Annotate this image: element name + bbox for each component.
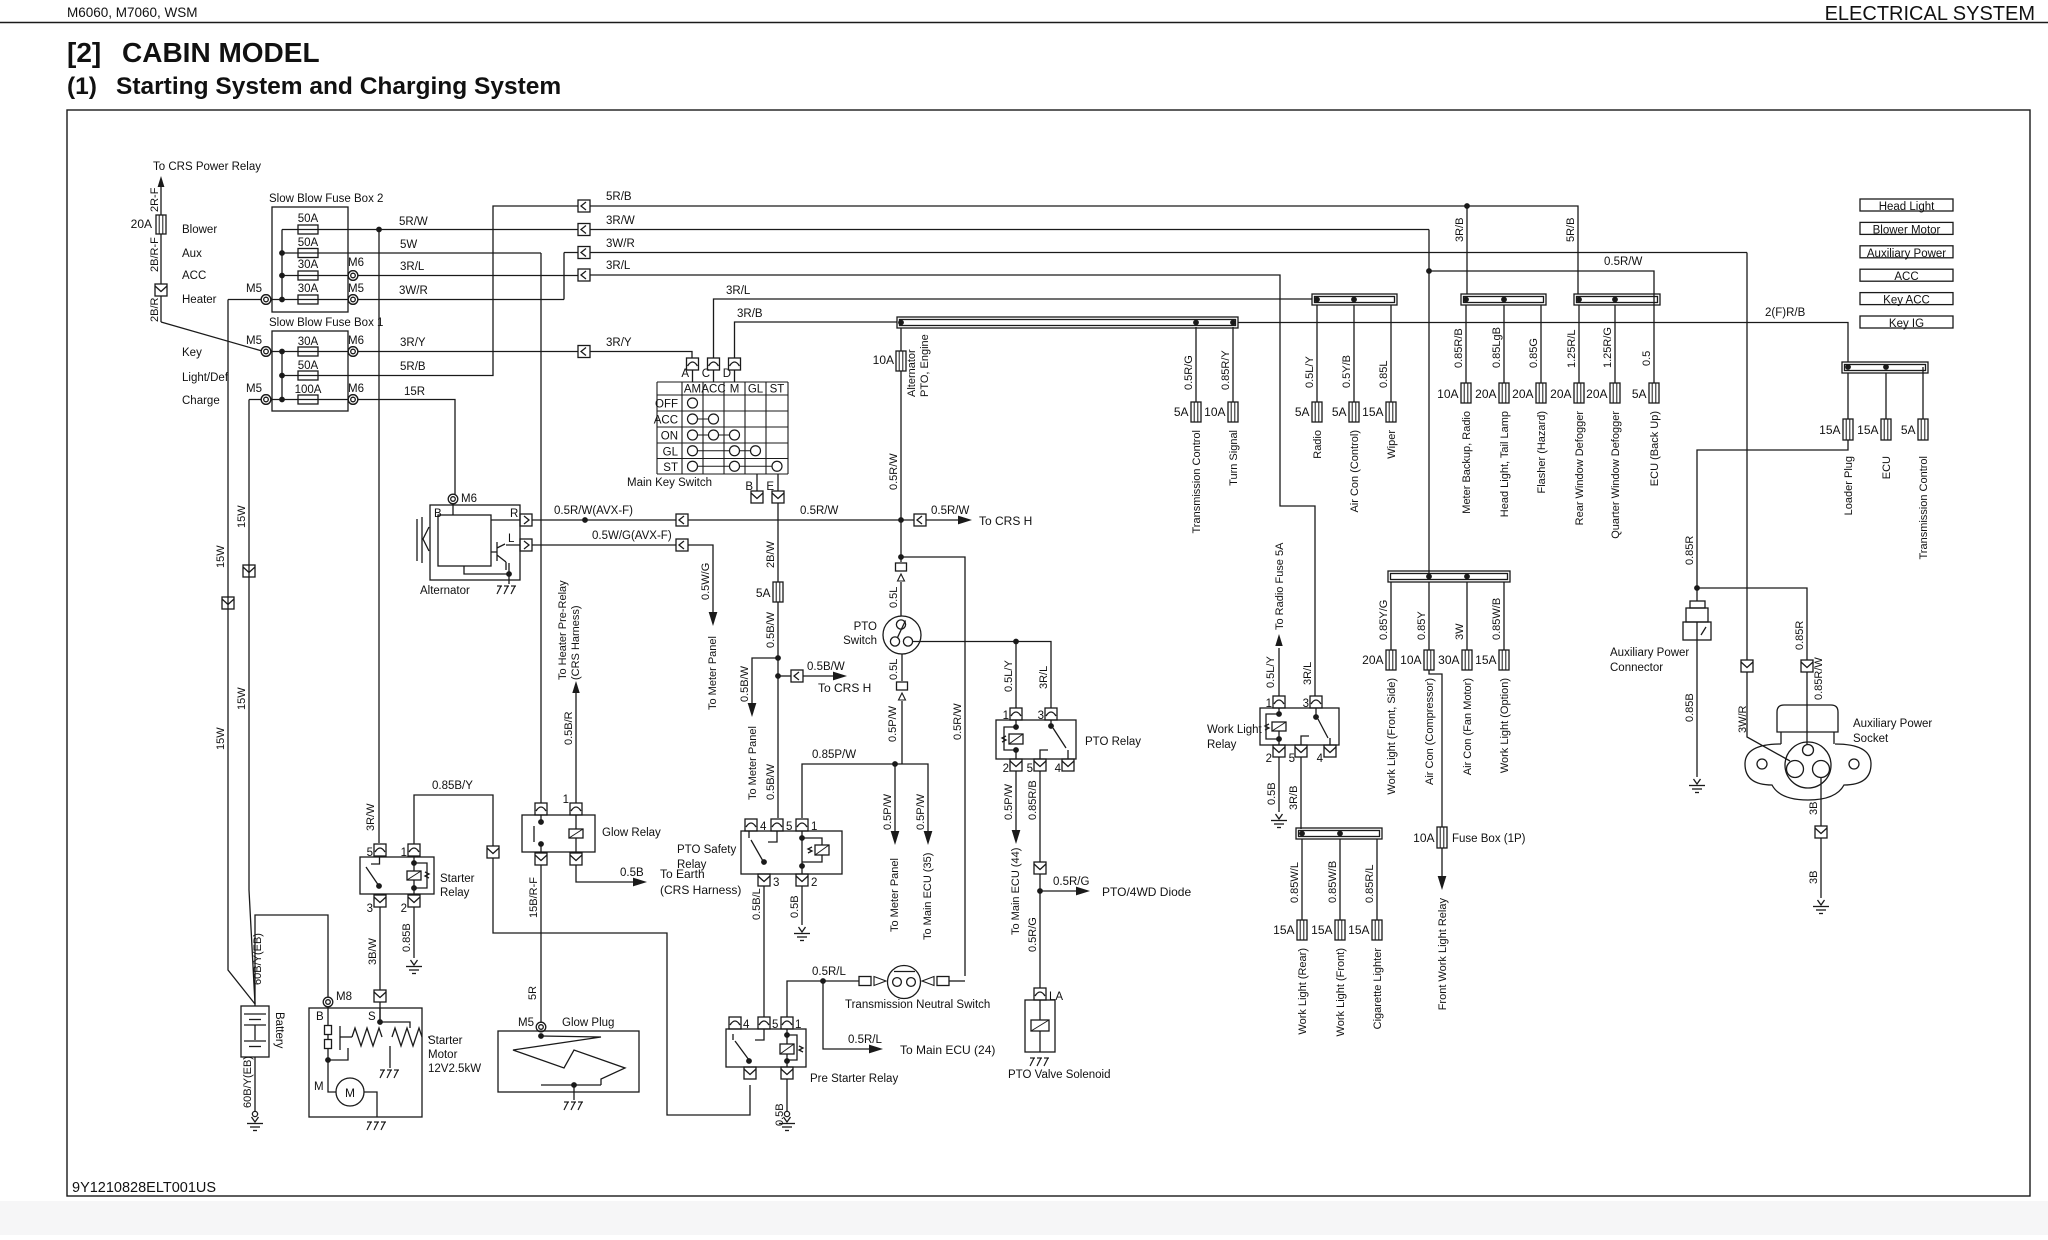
bus bar meter backup group [1461,294,1546,305]
alternator internal ground [464,563,509,584]
svg-text:0.5B/W: 0.5B/W [765,611,777,648]
svg-text:0.85B: 0.85B [1684,693,1696,722]
wire 0.5B/W branches [777,602,779,818]
wire 0.85R from loader plug fuse [1697,440,1848,588]
svg-text:30A: 30A [298,336,319,348]
svg-text:Heater: Heater [182,294,217,306]
svg-text:0.85Y: 0.85Y [1416,611,1428,640]
wire 0.85G drop [1540,305,1542,383]
svg-text:15A: 15A [1348,923,1369,937]
connector 5R/B [578,200,590,212]
wire 0.5B/L to pre starter relay [763,886,765,1017]
wire 3B socket to ground [1820,778,1822,826]
svg-text:1: 1 [795,1019,801,1031]
connector M8 starter B [323,997,333,1007]
wire 0.85R to socket [1697,588,1807,660]
svg-text:0.5B: 0.5B [789,895,801,918]
svg-text:Pre Starter Relay: Pre Starter Relay [810,1073,898,1085]
svg-text:3B/W: 3B/W [367,937,379,965]
svg-text:Auxiliary Power: Auxiliary Power [1867,248,1946,260]
svg-text:0.5P/W: 0.5P/W [915,793,927,830]
svg-text:0.5B/L: 0.5B/L [751,888,763,920]
svg-text:20A: 20A [1475,387,1496,401]
svg-text:5R: 5R [527,986,539,1000]
PTO relay coil [1004,720,1016,759]
svg-text:To CRS H: To CRS H [818,681,871,695]
svg-text:To Meter Panel: To Meter Panel [747,726,759,800]
svg-text:3R/B: 3R/B [1288,786,1300,810]
svg-text:50A: 50A [298,360,319,372]
wire 3R/B from terminal D [735,322,898,358]
svg-text:15A: 15A [1362,405,1383,419]
svg-text:30A: 30A [298,259,319,271]
wire loader plug drop [1847,373,1849,419]
svg-text:10A: 10A [873,353,894,367]
svg-text:To Meter Panel: To Meter Panel [889,858,901,932]
svg-text:3B: 3B [1808,871,1820,884]
svg-text:15A: 15A [1475,653,1496,667]
svg-text:0.85R/Y: 0.85R/Y [1220,350,1232,390]
Starter Relay [360,857,434,894]
svg-text:Work Light: Work Light [1207,724,1263,736]
Auxiliary Power Connector [1696,588,1698,601]
svg-text:ON: ON [661,431,678,443]
svg-text:Battery: Battery [273,1012,285,1049]
svg-text:Switch: Switch [843,635,877,647]
svg-text:0.85R/B: 0.85R/B [1027,780,1039,820]
svg-text:1: 1 [1266,698,1272,710]
svg-text:5R/B: 5R/B [1565,218,1577,242]
wire 3R/W branch down to starter relay [378,230,380,844]
wire 15B/R-F 5R to glow plug [540,865,542,1022]
svg-text:Slow Blow Fuse Box 2: Slow Blow Fuse Box 2 [269,193,383,205]
connector M6 alternator B [448,494,458,504]
svg-text:60B/Y(EB): 60B/Y(EB) [252,933,264,985]
svg-text:To CRS H: To CRS H [979,514,1032,528]
fuse 10A alternator [900,328,902,351]
svg-text:10A: 10A [1413,831,1434,845]
svg-text:4: 4 [1317,753,1324,765]
wire 2B/R to key fuse [160,296,162,322]
svg-text:5R/W: 5R/W [399,216,428,228]
net label box Key IG [1860,316,1953,328]
svg-text:0.85P/W: 0.85P/W [812,749,856,761]
header rule [0,22,2048,24]
svg-text:12V2.5kW: 12V2.5kW [428,1063,481,1075]
Glow Relay [522,815,595,852]
svg-text:3R/L: 3R/L [400,261,425,273]
svg-text:Main Key Switch: Main Key Switch [627,477,712,489]
svg-text:B: B [316,1011,324,1023]
svg-text:3R/L: 3R/L [1302,662,1314,685]
svg-text:Work Light (Rear): Work Light (Rear) [1297,948,1309,1035]
wire 3R/Y key output [266,351,578,353]
svg-text:M: M [314,1081,324,1093]
wire ECU drop [1885,373,1887,419]
connector 0.5B/W to CRS H [778,675,791,677]
svg-text:0.5: 0.5 [1641,351,1653,366]
svg-text:15R: 15R [404,386,425,398]
svg-text:Alternator: Alternator [906,349,918,397]
svg-text:0.5P/W: 0.5P/W [1003,783,1015,820]
svg-text:0.85L: 0.85L [1378,360,1390,388]
svg-text:Aux: Aux [182,248,202,260]
svg-text:3R/W: 3R/W [606,215,635,227]
svg-text:0.5R/W(AVX-F): 0.5R/W(AVX-F) [554,505,633,517]
wire 0.5B work light relay to ground [1278,757,1280,812]
svg-text:ACC: ACC [182,270,206,282]
svg-text:2: 2 [811,877,817,889]
Glow Plug [536,1022,546,1032]
wire 0.5R/W link to transmission neutral switch [901,557,965,976]
alternator pulley [417,517,429,563]
bus bar defogger group [1574,294,1660,305]
svg-text:0.5R/W: 0.5R/W [952,703,964,740]
svg-text:5: 5 [786,821,792,833]
svg-text:3R/B: 3R/B [737,308,763,320]
svg-text:To Main ECU (44): To Main ECU (44) [1010,848,1022,935]
svg-text:0.85R: 0.85R [1794,621,1806,650]
svg-text:1: 1 [1003,710,1009,722]
svg-text:0.5P/W: 0.5P/W [887,705,899,742]
svg-text:10A: 10A [1204,405,1225,419]
PTO Safety Relay [741,831,842,874]
svg-text:1: 1 [811,821,817,833]
PTO Valve Solenoid [1034,988,1046,1000]
svg-text:0.85LgB: 0.85LgB [1491,327,1503,368]
wire 0.85W/L drop [1301,839,1303,920]
svg-text:0.5R/G: 0.5R/G [1027,917,1039,952]
alternator assembly [430,505,520,580]
wire 3R/L to work light relay [590,275,1315,696]
svg-text:0.5L/Y: 0.5L/Y [1265,656,1277,688]
svg-text:To Meter Panel: To Meter Panel [707,636,719,710]
wire 2B/W from terminal E [777,503,779,582]
wire 5R/B light/def output [282,206,578,376]
wire 0.85LgB drop [1503,305,1505,383]
wire 1.25R/L drop [1578,305,1580,383]
svg-text:3W/R: 3W/R [399,285,428,297]
svg-text:Light/Def: Light/Def [182,372,229,384]
svg-text:0.5L: 0.5L [888,659,900,680]
wire 0.5W/G(AVX-F) from alternator L [532,544,676,546]
svg-text:0.85W/L: 0.85W/L [1289,862,1301,903]
svg-text:3W/R: 3W/R [606,238,635,250]
wire 0.85W/B drop to option [1503,582,1505,650]
bus bar front work light group [1388,571,1510,582]
svg-text:1: 1 [563,794,569,806]
wire 3R/B drop to fuse bus B [1466,206,1468,294]
svg-text:0.85B/Y: 0.85B/Y [432,780,473,792]
svg-text:0.85W/B: 0.85W/B [1327,861,1339,903]
svg-text:50A: 50A [298,213,319,225]
svg-text:0.5W/G(AVX-F): 0.5W/G(AVX-F) [592,530,672,542]
svg-text:Blower: Blower [182,224,217,236]
svg-text:15A: 15A [1273,923,1294,937]
svg-text:1.25R/G: 1.25R/G [1602,327,1614,368]
wire 0.5L below PTO switch [901,654,903,681]
connector 0.5W/G [676,539,688,551]
svg-text:0.5Y/B: 0.5Y/B [1341,355,1353,388]
svg-text:0.85R/L: 0.85R/L [1364,864,1376,903]
starter motor hold-in coils [352,1028,422,1046]
svg-text:0.5B/W: 0.5B/W [765,763,777,800]
svg-text:20A: 20A [131,217,152,231]
wire air con compressor to fuse box 1P [1429,670,1442,827]
svg-text:0.5R/W: 0.5R/W [1604,256,1642,268]
svg-text:0.5R/W: 0.5R/W [931,505,969,517]
wire 0.85B starter relay to ground [413,907,415,958]
wire 0.85R/B drop [1465,305,1467,383]
wire 0.85B/Y starter relay pin1 to pre starter relay [414,795,493,846]
svg-text:3R/L: 3R/L [726,285,751,297]
svg-text:Auxiliary Power: Auxiliary Power [1853,718,1932,730]
svg-text:M5: M5 [518,1017,534,1029]
svg-text:Quarter Window Defogger: Quarter Window Defogger [1610,411,1622,539]
PTO Switch [883,616,921,654]
svg-text:0.5L/Y: 0.5L/Y [1003,660,1015,692]
svg-text:0.5P/W: 0.5P/W [882,793,894,830]
svg-text:5A: 5A [1174,405,1189,419]
svg-text:0.5B: 0.5B [1266,782,1278,805]
svg-text:M6060, M7060, WSM: M6060, M7060, WSM [67,5,198,20]
svg-text:5A: 5A [1632,387,1647,401]
svg-text:To Main ECU (35): To Main ECU (35) [922,853,934,940]
wire 15W heater to battery [228,300,255,1005]
svg-text:0.5R/L: 0.5R/L [812,966,846,978]
Main Key Switch table [656,382,658,474]
svg-text:M5: M5 [246,335,262,347]
wire 3R/L from terminal C [714,299,1313,358]
wire 15W charge to battery [249,400,255,1005]
svg-text:PTO/4WD Diode: PTO/4WD Diode [1102,885,1191,899]
svg-text:ACC: ACC [701,384,725,396]
svg-text:0.85B: 0.85B [401,923,413,952]
svg-text:(CRS Harness): (CRS Harness) [660,883,741,897]
wire 15R charge output [249,400,455,495]
svg-text:4: 4 [743,1019,750,1031]
alternator regulator transistor [491,542,506,570]
svg-text:0.5L/Y: 0.5L/Y [1304,356,1316,388]
wire 2B/R-F [160,234,162,284]
svg-text:To Radio Fuse 5A: To Radio Fuse 5A [1274,542,1286,630]
svg-text:Wiper: Wiper [1386,430,1398,459]
svg-text:3R/B: 3R/B [1454,218,1466,242]
connector 3R/W [578,224,590,236]
svg-text:To CRS Power Relay: To CRS Power Relay [153,161,261,173]
svg-text:Flasher (Hazard): Flasher (Hazard) [1536,411,1548,494]
wire battery positive to starter B [255,915,328,1006]
wire 3R/B to work light bus [1300,757,1302,829]
PTO relay switch [1040,720,1068,759]
svg-text:Rear Window Defogger: Rear Window Defogger [1574,411,1586,526]
wire to front work light relay [1441,848,1443,876]
svg-text:Auxiliary Power: Auxiliary Power [1610,647,1689,659]
svg-text:S: S [368,1011,376,1023]
svg-text:Relay: Relay [677,859,707,871]
svg-text:0.5R/G: 0.5R/G [1183,355,1195,390]
wire 0.5L junction to PTO switch [898,554,904,560]
svg-text:0.5L: 0.5L [888,587,900,608]
svg-text:0.85R: 0.85R [1684,536,1696,565]
svg-text:Relay: Relay [1207,739,1237,751]
wire 0.5L/Y drop [1316,305,1318,402]
svg-text:Transmission Control: Transmission Control [1918,456,1930,560]
connector 3W/R [578,247,590,259]
net label box Key ACC [1860,293,1953,305]
bus bar rear work light group [1296,828,1382,839]
svg-text:3: 3 [773,877,779,889]
svg-text:0.85R/B: 0.85R/B [1453,328,1465,368]
svg-text:5: 5 [367,847,373,859]
svg-text:0.5B/W: 0.5B/W [807,661,845,673]
svg-text:3: 3 [1038,710,1044,722]
svg-text:Key ACC: Key ACC [1883,295,1930,307]
svg-text:M6: M6 [461,493,477,505]
svg-text:Air Con (Control): Air Con (Control) [1349,430,1361,513]
wire 0.5R/G to PTO valve solenoid [1039,874,1041,988]
svg-text:M: M [730,384,740,396]
svg-text:10A: 10A [1437,387,1458,401]
svg-text:0.5R/W: 0.5R/W [800,505,838,517]
svg-text:Fuse Box (1P): Fuse Box (1P) [1452,833,1526,845]
svg-text:OFF: OFF [655,399,678,411]
svg-text:0.85R/W: 0.85R/W [1813,657,1825,700]
key switch contacts [688,398,698,408]
svg-text:30A: 30A [1438,653,1459,667]
svg-text:4: 4 [760,821,767,833]
svg-text:Socket: Socket [1853,733,1889,745]
svg-text:Cigarette Lighter: Cigarette Lighter [1372,948,1384,1030]
svg-text:3R/L: 3R/L [1038,666,1050,689]
svg-text:CABIN MODEL: CABIN MODEL [122,37,320,68]
svg-text:B: B [434,508,442,520]
wire 0.5W/G to meter panel [688,545,713,612]
svg-text:Work Light (Front, Side): Work Light (Front, Side) [1386,678,1398,795]
svg-text:Glow Relay: Glow Relay [602,827,661,839]
svg-text:(CRS Harness): (CRS Harness) [570,605,582,680]
connector 0.5R/W right [914,514,926,526]
svg-text:2: 2 [1003,763,1009,775]
wire 0.5R/W to ECU backup fuse [1428,230,1430,576]
svg-text:Slow Blow Fuse Box 1: Slow Blow Fuse Box 1 [269,317,383,329]
wire 0.5R/W(AVX-F) from alternator R [532,519,676,521]
Work Light Relay [1260,708,1339,745]
wire transmission control drop [1922,367,1924,419]
svg-text:3R/L: 3R/L [606,260,631,272]
svg-text:To Main ECU (24): To Main ECU (24) [900,1043,995,1057]
svg-text:Key IG: Key IG [1889,318,1924,330]
wire 0.85R/L drop [1376,839,1378,920]
svg-text:M8: M8 [336,991,352,1003]
svg-text:5W: 5W [400,239,417,251]
svg-text:10A: 10A [1400,653,1421,667]
connector 3R/Y [578,346,590,358]
svg-text:ST: ST [663,462,678,474]
svg-text:Relay: Relay [440,887,470,899]
svg-text:5A: 5A [1295,405,1310,419]
wire 2(F)R/B to loader bus [1238,323,1848,363]
wire 0.5Y/B drop [1353,305,1355,402]
wire 0.5P/W arrows to meter panel and ECU 35 [892,761,898,767]
connector on 2B/R line [155,284,167,296]
svg-text:Head Light: Head Light [1879,201,1935,213]
svg-text:4: 4 [1055,763,1062,775]
alternator L terminal connector [520,539,532,551]
svg-text:[2]: [2] [67,37,101,68]
svg-text:M6: M6 [348,335,364,347]
svg-text:50A: 50A [298,237,319,249]
svg-text:Air Con (Fan Motor): Air Con (Fan Motor) [1462,678,1474,775]
wire 0.5L/Y to radio fuse [1278,648,1280,696]
wire 1.25R/G drop [1614,305,1616,383]
svg-text:PTO Safety: PTO Safety [677,844,736,856]
svg-text:2B/R-F: 2B/R-F [149,237,161,272]
svg-text:ST: ST [770,384,785,396]
svg-text:ACC: ACC [1894,271,1918,283]
svg-text:ECU: ECU [1881,456,1893,479]
alternator R terminal connector [520,514,532,526]
svg-text:GL: GL [748,384,764,396]
svg-text:M6: M6 [348,257,364,269]
svg-text:Front Work Light Relay: Front Work Light Relay [1437,898,1449,1011]
svg-text:5A: 5A [756,586,771,600]
svg-text:0.5W/G: 0.5W/G [700,563,712,600]
svg-text:L: L [508,533,515,545]
svg-text:Glow Plug: Glow Plug [562,1017,614,1029]
svg-text:2(F)R/B: 2(F)R/B [1765,307,1806,319]
wire 3B/W to starter motor S [379,907,381,990]
net label box Blower Motor [1860,222,1953,234]
bus bar Alternator PTO Engine [897,317,1238,328]
svg-text:15A: 15A [1819,423,1840,437]
wire 0.85B to ground [1696,640,1698,777]
svg-text:M5: M5 [246,383,262,395]
svg-text:0.85G: 0.85G [1528,338,1540,368]
Starter Motor 12V2.5kW [309,1008,422,1117]
wire 0.5R/W alternator fuse down [900,371,902,557]
svg-text:Meter Backup, Radio: Meter Backup, Radio [1461,411,1473,514]
svg-text:0.5R/W: 0.5R/W [888,453,900,490]
svg-text:2B/R: 2B/R [149,297,161,322]
svg-text:15B/R-F: 15B/R-F [528,877,540,918]
svg-text:3W: 3W [1454,623,1466,640]
svg-text:0.5R/L: 0.5R/L [848,1034,882,1046]
svg-text:15A: 15A [1311,923,1332,937]
svg-text:3R/Y: 3R/Y [606,337,632,349]
svg-text:Turn Signal: Turn Signal [1228,430,1240,486]
bus bar radio group [1312,294,1397,305]
svg-text:3B: 3B [1808,802,1820,815]
svg-text:2R-F: 2R-F [149,187,161,212]
svg-text:5: 5 [1289,753,1295,765]
svg-text:Charge: Charge [182,395,220,407]
svg-text:M6: M6 [348,383,364,395]
svg-text:Key: Key [182,347,202,359]
starter motor M winding [336,1078,364,1106]
wire 0.85Y/G drop [1390,582,1392,650]
PTO Relay [996,720,1076,759]
svg-text:5R/B: 5R/B [400,361,426,373]
svg-text:Starter: Starter [440,873,475,885]
wire 3W/R long line to auxiliary power [590,253,1747,661]
svg-text:Transmission Neutral Switch: Transmission Neutral Switch [845,999,990,1011]
wire 0.5R/L to main ECU 24 [823,981,869,1049]
net label box ACC [1860,269,1953,281]
wire 5R/W blower output [282,229,578,231]
svg-text:Loader Plug: Loader Plug [1843,456,1855,515]
svg-text:1.25R/L: 1.25R/L [1566,329,1578,368]
